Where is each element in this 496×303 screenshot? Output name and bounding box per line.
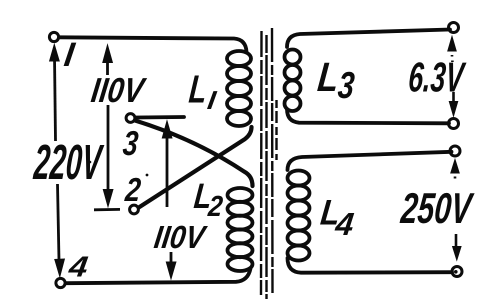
svg-text:250V: 250V — [398, 184, 476, 233]
svg-text:6.3V: 6.3V — [407, 55, 467, 101]
svg-text:II0V: II0V — [89, 71, 148, 110]
svg-text:2: 2 — [123, 173, 143, 209]
svg-text:4: 4 — [66, 250, 90, 283]
svg-text:3: 3 — [336, 66, 356, 107]
svg-text:220V: 220V — [32, 134, 106, 190]
svg-text:II0V: II0V — [152, 221, 209, 256]
svg-text:I: I — [206, 85, 220, 115]
svg-text:L: L — [187, 68, 208, 111]
svg-text:3: 3 — [121, 124, 140, 163]
svg-text:I: I — [62, 36, 78, 74]
